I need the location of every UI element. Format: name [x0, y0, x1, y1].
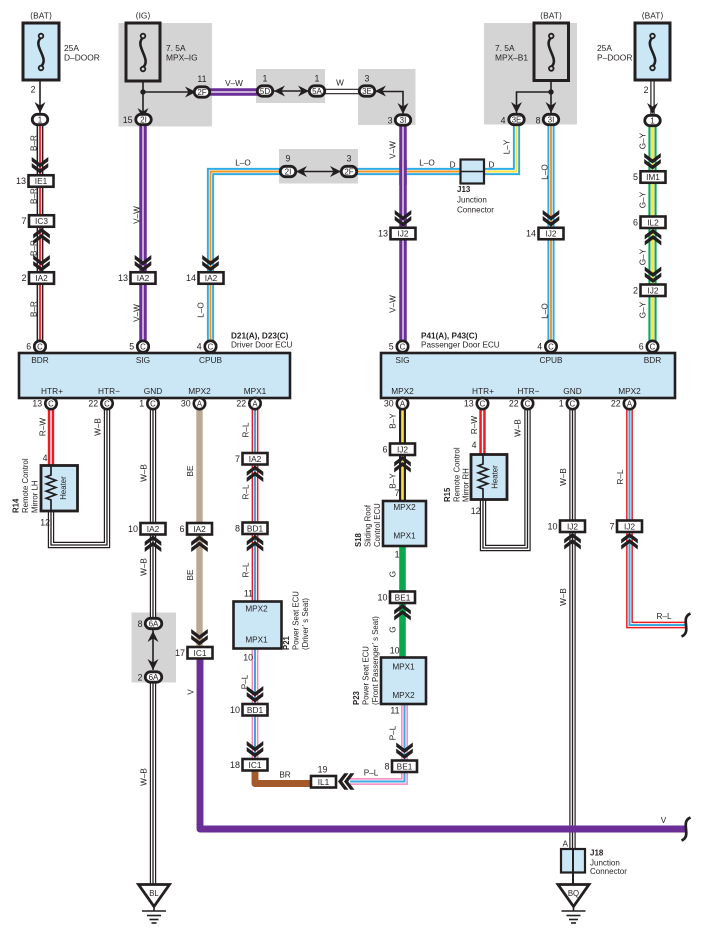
svg-text:8: 8	[384, 761, 389, 771]
svg-text:G: G	[389, 626, 398, 632]
svg-text:G–Y: G–Y	[639, 132, 648, 149]
svg-text:D–DOOR: D–DOOR	[64, 53, 100, 63]
svg-text:C: C	[650, 342, 656, 351]
svg-text:W–B: W–B	[94, 418, 103, 436]
svg-text:L–O: L–O	[541, 164, 550, 179]
svg-text:A: A	[627, 399, 633, 408]
svg-text:V–W: V–W	[225, 79, 243, 88]
svg-text:3: 3	[365, 74, 370, 84]
svg-text:9: 9	[286, 154, 291, 164]
svg-text:6: 6	[26, 342, 31, 352]
svg-text:4: 4	[472, 440, 477, 450]
svg-text:Connector: Connector	[457, 206, 494, 215]
svg-text:BE1: BE1	[397, 761, 413, 771]
svg-text:IJ2: IJ2	[624, 521, 635, 531]
svg-text:8: 8	[235, 523, 240, 533]
svg-text:2I: 2I	[140, 115, 147, 124]
svg-text:C: C	[150, 399, 156, 408]
svg-text:2: 2	[644, 85, 649, 95]
svg-text:B–R: B–R	[30, 188, 39, 204]
svg-text:12: 12	[40, 518, 50, 528]
svg-text:IJ2: IJ2	[647, 285, 658, 295]
svg-text:2F: 2F	[344, 167, 353, 176]
svg-text:IA2: IA2	[193, 524, 206, 534]
svg-text:P41(A), P43(C): P41(A), P43(C)	[421, 332, 478, 341]
svg-text:G: G	[389, 571, 398, 577]
svg-text:V–W: V–W	[133, 304, 142, 322]
svg-text:L–O: L–O	[197, 302, 206, 317]
svg-text:6: 6	[382, 444, 387, 454]
svg-text:1: 1	[263, 74, 268, 84]
svg-text:R–L: R–L	[616, 469, 625, 484]
svg-text:A: A	[252, 399, 258, 408]
svg-text:10: 10	[230, 705, 240, 715]
svg-text:W–B: W–B	[140, 558, 149, 576]
svg-text:S18: S18	[354, 532, 363, 547]
svg-text:C: C	[48, 399, 54, 408]
svg-text:8: 8	[536, 116, 541, 126]
svg-text:W–B: W–B	[140, 464, 149, 482]
svg-text:BE: BE	[186, 569, 195, 580]
svg-text:2: 2	[31, 85, 36, 95]
svg-text:Connector: Connector	[590, 867, 627, 876]
svg-text:BE: BE	[186, 465, 195, 476]
svg-text:22: 22	[88, 399, 98, 409]
svg-text:6: 6	[633, 217, 638, 227]
svg-text:12: 12	[471, 506, 481, 516]
svg-text:1: 1	[315, 74, 320, 84]
svg-text:R–L: R–L	[242, 484, 251, 499]
svg-text:5A: 5A	[312, 87, 322, 96]
svg-text:BD1: BD1	[247, 523, 264, 533]
svg-text:BDR: BDR	[644, 355, 662, 365]
svg-text:8: 8	[138, 619, 143, 629]
svg-text:MPX1: MPX1	[245, 636, 268, 645]
svg-text:13: 13	[464, 399, 474, 409]
svg-text:BD1: BD1	[247, 705, 264, 715]
svg-text:6: 6	[639, 342, 644, 352]
svg-text:IA2: IA2	[205, 273, 218, 283]
svg-text:2: 2	[138, 673, 143, 683]
svg-text:V–W: V–W	[133, 206, 142, 224]
svg-text:25A: 25A	[64, 43, 79, 53]
svg-text:6: 6	[179, 524, 184, 534]
svg-text:IJ2: IJ2	[397, 444, 408, 454]
svg-text:30: 30	[384, 399, 394, 409]
svg-text:L–O: L–O	[235, 159, 250, 168]
svg-text:Power Seat ECU: Power Seat ECU	[362, 646, 371, 705]
svg-text:13: 13	[16, 176, 26, 186]
svg-text:6A: 6A	[149, 673, 159, 682]
svg-text:11: 11	[390, 706, 399, 716]
svg-text:1: 1	[395, 550, 400, 560]
svg-text:30: 30	[181, 399, 191, 409]
svg-text:14: 14	[526, 229, 536, 239]
svg-text:IL2: IL2	[647, 217, 659, 227]
svg-text:(Front Passenger’ s Seat): (Front Passenger’ s Seat)	[371, 616, 380, 705]
svg-text:C: C	[208, 342, 214, 351]
svg-text:7. 5A: 7. 5A	[495, 43, 515, 53]
svg-text:BR: BR	[279, 771, 290, 780]
svg-text:L–O: L–O	[541, 303, 550, 318]
svg-text:IA2: IA2	[147, 524, 160, 534]
svg-text:J18: J18	[590, 849, 604, 858]
svg-text:IA2: IA2	[35, 273, 48, 283]
svg-text:BE1: BE1	[395, 592, 411, 602]
svg-text:13: 13	[118, 273, 128, 283]
svg-text:10: 10	[390, 646, 400, 656]
svg-text:Driver Door ECU: Driver Door ECU	[231, 341, 293, 350]
svg-text:A: A	[563, 840, 569, 849]
svg-text:MPX–IG: MPX–IG	[166, 53, 198, 63]
svg-text:14: 14	[186, 273, 196, 283]
svg-text:7: 7	[609, 521, 614, 531]
svg-text:Sliding Roof: Sliding Roof	[364, 504, 373, 547]
svg-text:MPX1: MPX1	[393, 532, 416, 541]
svg-text:V–W: V–W	[389, 295, 398, 313]
svg-text:GND: GND	[144, 386, 162, 396]
svg-text:7: 7	[21, 216, 26, 226]
svg-text:1: 1	[559, 399, 564, 409]
svg-text:Power Seat ECU: Power Seat ECU	[292, 591, 301, 650]
svg-text:3I: 3I	[400, 116, 407, 125]
svg-text:11: 11	[244, 589, 253, 599]
svg-text:4: 4	[197, 342, 202, 352]
svg-text:Control ECU: Control ECU	[373, 503, 382, 547]
svg-text:2: 2	[21, 273, 26, 283]
svg-text:C: C	[104, 399, 110, 408]
svg-text:13: 13	[32, 399, 42, 409]
svg-text:3E: 3E	[362, 87, 372, 96]
svg-text:W–B: W–B	[514, 419, 523, 437]
svg-text:MPX2: MPX2	[391, 386, 414, 396]
svg-text:C: C	[570, 399, 576, 408]
svg-text:C: C	[400, 342, 406, 351]
svg-text:V–W: V–W	[389, 141, 398, 159]
svg-text:C: C	[548, 342, 554, 351]
svg-text:10: 10	[377, 592, 387, 602]
svg-text:R–W: R–W	[470, 416, 479, 434]
svg-text:7: 7	[235, 454, 240, 464]
svg-text:R–L: R–L	[656, 612, 671, 621]
svg-text:MPX1: MPX1	[244, 386, 267, 396]
svg-text:5: 5	[633, 172, 638, 182]
svg-text:2I: 2I	[285, 167, 292, 176]
svg-text:MPX2: MPX2	[618, 386, 641, 396]
svg-text:25A: 25A	[597, 43, 612, 53]
svg-text:⟨BAT⟩: ⟨BAT⟩	[540, 11, 562, 21]
svg-text:1: 1	[38, 115, 43, 124]
svg-text:15: 15	[123, 115, 133, 125]
svg-text:1: 1	[650, 116, 655, 125]
svg-text:HTR−: HTR−	[98, 386, 120, 396]
svg-text:B–R: B–R	[30, 240, 39, 256]
svg-text:IL1: IL1	[318, 777, 330, 787]
svg-text:HTR−: HTR−	[518, 386, 540, 396]
svg-text:6A: 6A	[149, 619, 159, 628]
svg-text:4: 4	[537, 342, 542, 352]
svg-text:17: 17	[175, 648, 185, 658]
svg-text:IA2: IA2	[137, 273, 150, 283]
svg-text:IC3: IC3	[35, 216, 48, 226]
svg-text:B–R: B–R	[30, 135, 39, 151]
svg-text:L–Y: L–Y	[503, 139, 512, 154]
svg-text:10: 10	[128, 524, 138, 534]
svg-text:Heater: Heater	[491, 465, 500, 489]
svg-text:R–L: R–L	[242, 422, 251, 437]
svg-text:C: C	[525, 399, 531, 408]
svg-text:MPX2: MPX2	[393, 503, 416, 512]
svg-text:IA2: IA2	[249, 454, 262, 464]
svg-text:MPX–B1: MPX–B1	[495, 53, 528, 63]
svg-text:P23: P23	[352, 690, 361, 705]
svg-text:W–B: W–B	[140, 768, 149, 786]
svg-text:G–Y: G–Y	[639, 191, 648, 208]
svg-text:MPX2: MPX2	[392, 691, 415, 700]
svg-text:⟨BAT⟩: ⟨BAT⟩	[30, 11, 52, 21]
svg-text:7. 5A: 7. 5A	[166, 43, 186, 53]
svg-text:IJ2: IJ2	[567, 521, 578, 531]
svg-text:22: 22	[236, 399, 246, 409]
svg-text:D: D	[489, 161, 495, 170]
svg-text:7: 7	[395, 488, 400, 498]
svg-text:18: 18	[230, 760, 240, 770]
svg-text:G–Y: G–Y	[639, 248, 648, 265]
svg-text:R–L: R–L	[242, 562, 251, 577]
svg-text:B–R: B–R	[30, 301, 39, 317]
svg-text:Mirror LH: Mirror LH	[31, 481, 40, 514]
svg-text:HTR+: HTR+	[472, 386, 494, 396]
svg-text:R15: R15	[443, 487, 452, 502]
svg-text:10: 10	[243, 653, 253, 663]
svg-text:P–L: P–L	[241, 674, 250, 689]
svg-text:Mirror RH: Mirror RH	[462, 468, 471, 502]
svg-text:HTR+: HTR+	[41, 386, 63, 396]
svg-text:MPX1: MPX1	[392, 663, 415, 672]
svg-text:IJ2: IJ2	[545, 229, 556, 239]
svg-text:R14: R14	[12, 498, 21, 513]
svg-text:P–DOOR: P–DOOR	[597, 53, 632, 63]
svg-text:V: V	[187, 689, 196, 695]
svg-text:4: 4	[501, 116, 506, 126]
svg-text:P–L: P–L	[389, 725, 398, 740]
svg-text:22: 22	[509, 399, 519, 409]
svg-text:D: D	[450, 161, 456, 170]
svg-text:Heater: Heater	[59, 476, 68, 500]
svg-text:SIG: SIG	[136, 355, 150, 365]
svg-text:P–L: P–L	[364, 769, 379, 778]
svg-text:L–O: L–O	[419, 159, 434, 168]
svg-text:C: C	[140, 342, 146, 351]
svg-text:C: C	[37, 342, 43, 351]
svg-text:IJ2: IJ2	[397, 229, 408, 239]
svg-text:⟨IG⟩: ⟨IG⟩	[135, 11, 150, 21]
svg-text:5: 5	[389, 342, 394, 352]
svg-text:MPX2: MPX2	[188, 386, 211, 396]
svg-text:1: 1	[139, 399, 144, 409]
svg-text:(Driver’ s Seat): (Driver’ s Seat)	[301, 598, 310, 650]
svg-text:J13: J13	[457, 185, 471, 194]
svg-text:13: 13	[378, 229, 388, 239]
svg-text:2F: 2F	[197, 88, 206, 97]
svg-text:⟨BAT⟩: ⟨BAT⟩	[641, 11, 663, 21]
svg-text:Remote Control: Remote Control	[21, 458, 30, 513]
svg-text:GND: GND	[563, 386, 581, 396]
svg-text:IC1: IC1	[194, 648, 207, 658]
svg-text:A: A	[197, 399, 203, 408]
svg-text:IM1: IM1	[646, 172, 660, 182]
svg-text:Junction: Junction	[457, 196, 487, 205]
svg-text:BL: BL	[149, 889, 159, 898]
svg-text:B–Y: B–Y	[389, 473, 398, 489]
svg-text:5D: 5D	[260, 87, 270, 96]
svg-text:3: 3	[388, 116, 393, 126]
svg-text:G–Y: G–Y	[639, 301, 648, 318]
svg-text:MPX2: MPX2	[245, 605, 268, 614]
svg-text:5: 5	[129, 342, 134, 352]
svg-text:11: 11	[197, 74, 206, 84]
svg-text:V: V	[661, 816, 667, 825]
svg-text:CPUB: CPUB	[199, 355, 223, 365]
svg-text:A: A	[400, 399, 406, 408]
svg-text:B–Y: B–Y	[389, 413, 398, 429]
svg-text:SIG: SIG	[395, 355, 409, 365]
svg-text:BQ: BQ	[568, 889, 579, 898]
svg-text:W–B: W–B	[559, 468, 568, 486]
svg-text:22: 22	[611, 399, 621, 409]
svg-text:19: 19	[318, 765, 328, 775]
svg-text:3I: 3I	[548, 115, 555, 124]
svg-text:W: W	[336, 79, 344, 88]
svg-text:C: C	[480, 399, 486, 408]
svg-text:4: 4	[43, 453, 48, 463]
svg-text:Remote Control: Remote Control	[453, 447, 462, 502]
svg-text:3E: 3E	[512, 115, 522, 124]
svg-text:W–B: W–B	[559, 588, 568, 606]
svg-text:Passenger Door ECU: Passenger Door ECU	[421, 341, 500, 350]
svg-text:2: 2	[633, 285, 638, 295]
svg-text:IE1: IE1	[35, 176, 48, 186]
svg-text:P21: P21	[282, 635, 291, 650]
svg-text:10: 10	[547, 521, 557, 531]
svg-text:D21(A), D23(C): D21(A), D23(C)	[231, 332, 289, 341]
svg-text:CPUB: CPUB	[539, 355, 563, 365]
svg-text:BDR: BDR	[31, 355, 49, 365]
svg-text:3: 3	[347, 154, 352, 164]
svg-text:R–W: R–W	[39, 418, 48, 436]
svg-text:IC1: IC1	[249, 760, 262, 770]
